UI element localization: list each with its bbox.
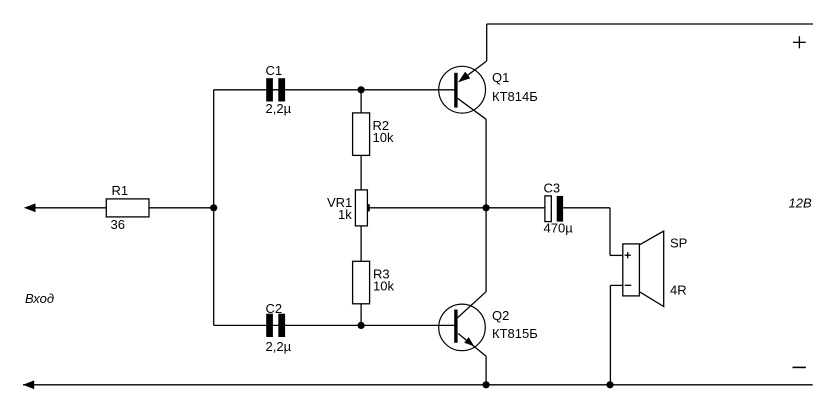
power symbol - (negative rail) (793, 366, 806, 368)
wire Q1 collector vertical to output node and Q2 collector (485, 119, 487, 291)
svg-text:Вход: Вход (25, 291, 54, 306)
svg-text:КТ815Б: КТ815Б (492, 326, 538, 341)
wire R3 bottom lead (360, 304, 362, 326)
node B junction dot (C1 / R2 top) (358, 86, 365, 93)
wire vertical C1-C2 branch (213, 90, 215, 326)
wire R1 right to node A (149, 207, 214, 209)
wire speaker - lead down to bottom rail (610, 285, 622, 384)
resistor R1 (106, 199, 149, 217)
wire input mid line left (arrow to R1) (25, 207, 106, 209)
wire Q1 emitter vertical to top rail (486, 24, 488, 61)
resistor R2 (353, 113, 370, 155)
power symbol + (positive rail) (793, 36, 806, 48)
wire output node to C3 (486, 207, 545, 209)
wire C2 line (branch corner to Q2 base) (214, 324, 455, 326)
svg-text:10k: 10k (373, 130, 394, 145)
svg-text:КТ814Б: КТ814Б (492, 89, 538, 104)
arrowhead bottom-left rail (23, 380, 34, 389)
transistor Q2 (439, 292, 486, 357)
node A junction dot (R1 / C1-C2 branch) (210, 204, 217, 211)
wire Q2 emitter vertical to bottom rail (485, 356, 487, 385)
svg-text:C2: C2 (266, 301, 283, 316)
svg-text:R1: R1 (112, 183, 129, 198)
wire VR1 wiper to output node (370, 207, 486, 209)
resistor R3 (353, 261, 370, 304)
svg-text:2,2µ: 2,2µ (266, 101, 292, 116)
potentiometer VR1 (355, 190, 367, 226)
svg-text:10k: 10k (373, 278, 394, 293)
capacitor C2 (266, 314, 285, 337)
arrowhead input mid line (24, 203, 36, 212)
capacitor C3 (polarized) (545, 196, 563, 222)
svg-text:C1: C1 (266, 63, 283, 78)
svg-text:SP: SP (670, 236, 687, 251)
svg-text:4R: 4R (670, 283, 687, 298)
speaker SP (623, 231, 664, 307)
wire speaker + lead (610, 208, 623, 256)
wire C1 line (branch corner to Q1 base) (214, 89, 455, 91)
svg-text:1k: 1k (338, 207, 352, 222)
svg-text:12В: 12В (789, 196, 812, 211)
svg-text:Q2: Q2 (492, 308, 509, 323)
wire bottom rail (23, 384, 813, 386)
svg-text:470µ: 470µ (544, 220, 574, 235)
svg-text:2,2µ: 2,2µ (266, 339, 292, 354)
node E junction dot (Q2 emitter / bottom rail) (483, 381, 490, 388)
svg-text:Q1: Q1 (492, 70, 509, 85)
wire R2 top lead (360, 90, 362, 113)
svg-text:C3: C3 (544, 181, 561, 196)
transistor Q1 (439, 61, 487, 119)
node F junction dot (speaker - / bottom rail) (606, 381, 613, 388)
wire top +12V rail (487, 23, 813, 25)
wiper tap of VR1 (367, 204, 369, 211)
node D junction dot (output node) (483, 204, 490, 211)
node C junction dot (C2 / R3 bottom) (358, 322, 365, 329)
wire VR1 bottom to R3 top (360, 226, 362, 261)
capacitor C1 (266, 78, 285, 101)
wire C3 to speaker corner (563, 207, 610, 209)
svg-text:36: 36 (111, 217, 125, 232)
wire R2 bottom to VR1 top (360, 155, 362, 190)
